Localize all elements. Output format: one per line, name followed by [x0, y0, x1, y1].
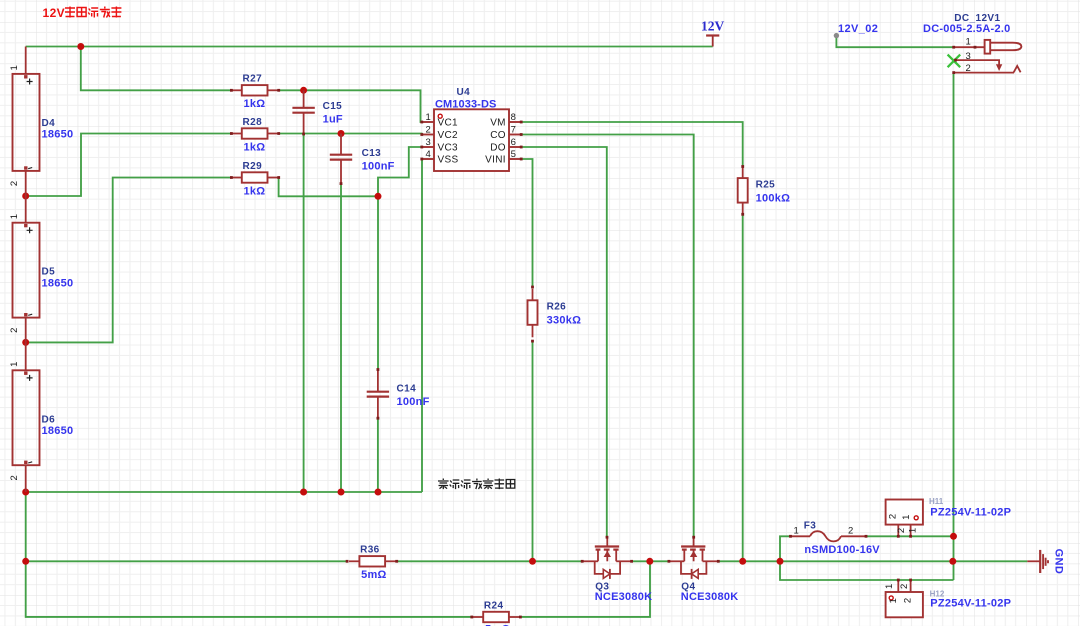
resistor R24 — [473, 600, 520, 626]
resistor R28 1k — [231, 117, 278, 154]
wire R24 right to mid node — [520, 561, 650, 617]
svg-text:H11: H11 — [929, 497, 944, 506]
svg-text:R24: R24 — [484, 600, 504, 611]
svg-text:nSMD100-16V: nSMD100-16V — [804, 544, 880, 556]
svg-text:1uF: 1uF — [323, 114, 343, 126]
svg-text:5: 5 — [511, 149, 516, 160]
wire F3 branch up — [780, 536, 791, 561]
ground GND — [1027, 549, 1064, 575]
fuse F3 nSMD100-16V — [791, 521, 881, 556]
svg-text:F3: F3 — [804, 521, 817, 532]
svg-text:18650: 18650 — [42, 277, 74, 289]
svg-text:1: 1 — [908, 528, 919, 533]
svg-text:12V: 12V — [701, 19, 725, 34]
svg-text:2: 2 — [899, 584, 910, 589]
svg-text:18650: 18650 — [42, 425, 74, 437]
svg-text:5mΩ: 5mΩ — [361, 569, 386, 581]
wire R27 to C15 node to U4 pin1 — [279, 90, 423, 122]
wire F3 to DC vertical — [866, 535, 954, 537]
svg-text:R28: R28 — [243, 117, 263, 128]
resistor R29 1k — [231, 161, 278, 198]
battery D5 18650 — [9, 196, 73, 342]
wire Q4 to GND row — [718, 560, 1027, 562]
svg-text:DC-005-2.5A-2.0: DC-005-2.5A-2.0 — [923, 23, 1011, 35]
svg-text:1kΩ: 1kΩ — [244, 141, 266, 153]
junction — [529, 558, 536, 565]
resistor R26 330k — [528, 289, 582, 338]
junction — [950, 533, 957, 540]
svg-text:VC2: VC2 — [438, 130, 458, 141]
svg-text:2: 2 — [848, 526, 853, 537]
wire main row left to R36 — [26, 560, 347, 562]
svg-text:2: 2 — [9, 328, 20, 333]
wire battery minus down left rail — [26, 492, 472, 617]
svg-text:2: 2 — [966, 63, 971, 74]
svg-text:6: 6 — [511, 137, 516, 148]
wire R26 bottom to main row — [532, 341, 534, 561]
battery D4 18650 — [9, 47, 73, 197]
svg-text:7: 7 — [511, 125, 516, 136]
svg-text:D5: D5 — [42, 267, 56, 278]
svg-text:12V: 12V — [43, 6, 66, 20]
capacitor C14 100nF — [367, 370, 430, 419]
svg-text:2: 2 — [888, 514, 899, 519]
resistor R27 1k — [231, 74, 278, 111]
battery D6 18650 — [9, 342, 73, 492]
svg-text:R27: R27 — [243, 74, 263, 85]
junction — [375, 489, 382, 496]
svg-text:2: 2 — [9, 181, 20, 186]
svg-text:18650: 18650 — [42, 129, 74, 141]
connector H11 PZ254V-11-02P — [886, 497, 1012, 537]
svg-text:C15: C15 — [323, 101, 343, 112]
wire U4 pin7 CO to Q4 gate — [520, 135, 694, 538]
svg-text:R29: R29 — [243, 161, 263, 172]
junction — [300, 489, 307, 496]
wire R28 to C13 node to U4 pin2 — [279, 133, 423, 135]
capacitor C13 100nF — [330, 134, 395, 184]
junction — [22, 193, 29, 200]
svg-text:1: 1 — [901, 515, 912, 520]
svg-text:1: 1 — [888, 598, 899, 603]
junction — [22, 558, 29, 565]
svg-text:1: 1 — [9, 362, 20, 367]
junction — [739, 558, 746, 565]
svg-text:CM1033-DS: CM1033-DS — [435, 98, 496, 110]
wire U4 pin6 DO to Q3 gate — [520, 147, 607, 537]
wire C15 bottom to ground bus — [303, 134, 305, 492]
junction — [77, 43, 84, 50]
svg-text:CO: CO — [490, 130, 506, 141]
wire D4- to R28 row (VC2) — [26, 134, 232, 197]
svg-text:GND: GND — [1053, 549, 1065, 575]
svg-text:330kΩ: 330kΩ — [547, 315, 582, 327]
junction — [338, 489, 345, 496]
svg-text:2: 2 — [896, 528, 907, 533]
wire ground bus horizontal — [26, 491, 422, 493]
wire node A to C14 top — [377, 196, 379, 369]
wire junction drop to R27 row — [81, 47, 232, 91]
svg-text:R36: R36 — [360, 545, 380, 556]
svg-text:PZ254V-11-02P: PZ254V-11-02P — [930, 507, 1011, 519]
svg-text:4: 4 — [426, 149, 431, 160]
junction — [300, 87, 307, 94]
svg-text:1: 1 — [426, 112, 431, 123]
capacitor C15 1uF — [292, 90, 343, 134]
svg-text:PZ254V-11-02P: PZ254V-11-02P — [930, 598, 1011, 610]
svg-text:100nF: 100nF — [397, 396, 430, 408]
net port dot 12V_02 — [834, 33, 839, 38]
svg-text:3: 3 — [966, 51, 971, 62]
svg-text:1: 1 — [794, 526, 799, 537]
svg-text:1: 1 — [9, 65, 20, 70]
svg-text:R26: R26 — [547, 302, 567, 313]
wire D5- to R29 row — [26, 178, 232, 343]
junction — [22, 489, 29, 496]
junction — [22, 339, 29, 346]
junction — [375, 193, 382, 200]
svg-text:1: 1 — [966, 37, 971, 48]
svg-text:R25: R25 — [756, 180, 776, 191]
svg-text:VSS: VSS — [438, 155, 459, 166]
connector H12 PZ254V-11-02P — [884, 580, 1011, 617]
svg-text:U4: U4 — [457, 87, 471, 98]
svg-text:1: 1 — [884, 584, 895, 589]
svg-text:NCE3080K: NCE3080K — [595, 591, 653, 603]
wire Q3 to Q4 — [632, 560, 669, 562]
svg-text:1kΩ: 1kΩ — [244, 185, 266, 197]
svg-text:1kΩ: 1kΩ — [244, 98, 266, 110]
wire U4 pin5 VINI to R26 — [520, 159, 533, 287]
wire R29 right to node A — [279, 178, 378, 197]
svg-text:2: 2 — [426, 125, 431, 136]
op-amp / IC U4 CM1033-DS — [422, 87, 521, 171]
junction — [646, 558, 653, 565]
transistor Q4 NCE3080K — [669, 537, 739, 603]
svg-text:VM: VM — [490, 118, 506, 129]
svg-text:C13: C13 — [362, 148, 382, 159]
power flag 12V — [701, 19, 725, 47]
svg-text:8: 8 — [511, 112, 516, 123]
svg-text:12V_02: 12V_02 — [838, 23, 878, 35]
wire U4 pin4 VSS down — [421, 159, 423, 492]
wire R36 to Q3 — [397, 560, 583, 562]
wire DC jack pin2 vertical — [953, 73, 955, 580]
svg-text:D6: D6 — [42, 414, 56, 425]
resistor R25 100k — [738, 167, 790, 216]
junction — [949, 558, 956, 565]
svg-text:2: 2 — [9, 475, 20, 480]
text circuit note (CJK) 带检流方案电路 — [438, 479, 449, 490]
svg-text:3: 3 — [426, 137, 431, 148]
svg-text:VINI: VINI — [485, 155, 506, 166]
wire C14 bottom to ground bus — [377, 418, 379, 492]
junction — [777, 558, 784, 565]
junction — [338, 130, 345, 137]
wire C13 bottom to ground bus — [340, 184, 342, 492]
svg-text:DO: DO — [490, 143, 506, 154]
wire R25 bottom to main row — [742, 214, 744, 561]
svg-text:2: 2 — [902, 598, 913, 603]
wire 12V top rail — [26, 46, 713, 48]
svg-text:NCE3080K: NCE3080K — [681, 591, 739, 603]
svg-text:VC1: VC1 — [438, 118, 458, 129]
svg-text:D4: D4 — [42, 118, 56, 129]
resistor R36 5m — [349, 545, 396, 582]
svg-text:100nF: 100nF — [362, 161, 395, 173]
svg-text:VC3: VC3 — [438, 143, 458, 154]
svg-text:100kΩ: 100kΩ — [756, 193, 791, 205]
svg-text:1: 1 — [9, 214, 20, 219]
wire H12 branch down — [780, 561, 954, 580]
wire U4 pin3 VC3 to node A — [378, 147, 423, 196]
transistor Q3 NCE3080K — [582, 537, 652, 603]
pin end marks — [230, 89, 233, 92]
connector DC_12V1 DC-005-2.5A-2.0 barrel jack — [923, 13, 1021, 74]
svg-text:C14: C14 — [397, 384, 417, 395]
wire U4 pin8 VM to R25 — [520, 122, 743, 167]
wire 12V_02 to DC jack pin1 — [836, 36, 953, 48]
